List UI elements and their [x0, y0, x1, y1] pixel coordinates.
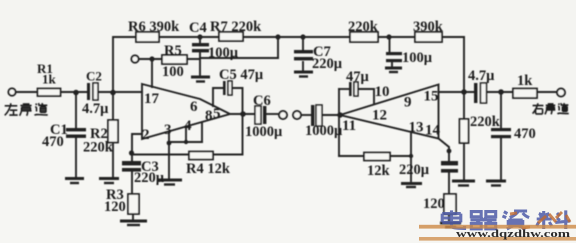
- svg-text:6: 6: [190, 99, 198, 115]
- svg-text:1k: 1k: [517, 73, 533, 89]
- svg-text:120: 120: [104, 199, 126, 215]
- svg-text:4: 4: [184, 118, 192, 134]
- svg-text:R5: R5: [164, 43, 182, 59]
- svg-text:390k: 390k: [413, 19, 444, 35]
- svg-text:100: 100: [162, 64, 184, 80]
- svg-text:47μ: 47μ: [346, 69, 370, 85]
- svg-text:1000μ: 1000μ: [245, 124, 283, 140]
- svg-text:3: 3: [164, 122, 172, 138]
- svg-text:220k: 220k: [470, 114, 501, 130]
- svg-text:100μ: 100μ: [402, 50, 433, 66]
- svg-text:12k: 12k: [367, 163, 391, 179]
- svg-text:C5 47μ: C5 47μ: [219, 67, 264, 83]
- svg-text:1000μ: 1000μ: [305, 123, 343, 139]
- svg-text:220μ: 220μ: [312, 56, 343, 72]
- svg-text:470: 470: [42, 134, 64, 150]
- svg-text:100μ: 100μ: [208, 45, 239, 61]
- svg-text:11: 11: [342, 118, 356, 134]
- svg-text:8: 8: [205, 108, 213, 124]
- svg-text:4.7μ: 4.7μ: [82, 101, 109, 117]
- svg-text:C2: C2: [86, 69, 102, 84]
- svg-text:1k: 1k: [42, 72, 57, 87]
- svg-text:C4: C4: [189, 20, 207, 36]
- svg-text:4.7μ: 4.7μ: [468, 68, 495, 84]
- svg-text:9: 9: [404, 95, 412, 111]
- svg-text:220μ: 220μ: [134, 170, 165, 186]
- svg-text:12: 12: [372, 108, 387, 124]
- svg-text:15: 15: [424, 89, 439, 105]
- svg-text:C6: C6: [253, 93, 271, 109]
- svg-text:120: 120: [423, 196, 445, 212]
- svg-text:220k: 220k: [348, 19, 379, 35]
- svg-text:220μ: 220μ: [399, 162, 430, 178]
- svg-text:10: 10: [375, 84, 390, 100]
- svg-text:5: 5: [213, 106, 221, 122]
- svg-text:14: 14: [425, 123, 441, 139]
- svg-text:www.dqzdhw.com: www.dqzdhw.com: [456, 228, 570, 240]
- svg-text:R7 220k: R7 220k: [210, 19, 262, 35]
- svg-text:470: 470: [514, 126, 536, 142]
- svg-text:R4 12k: R4 12k: [186, 161, 231, 177]
- svg-text:2: 2: [142, 127, 150, 143]
- svg-text:R6 390k: R6 390k: [128, 19, 180, 35]
- svg-text:13: 13: [409, 120, 424, 136]
- svg-text:220k: 220k: [83, 140, 114, 156]
- svg-text:17: 17: [144, 91, 160, 107]
